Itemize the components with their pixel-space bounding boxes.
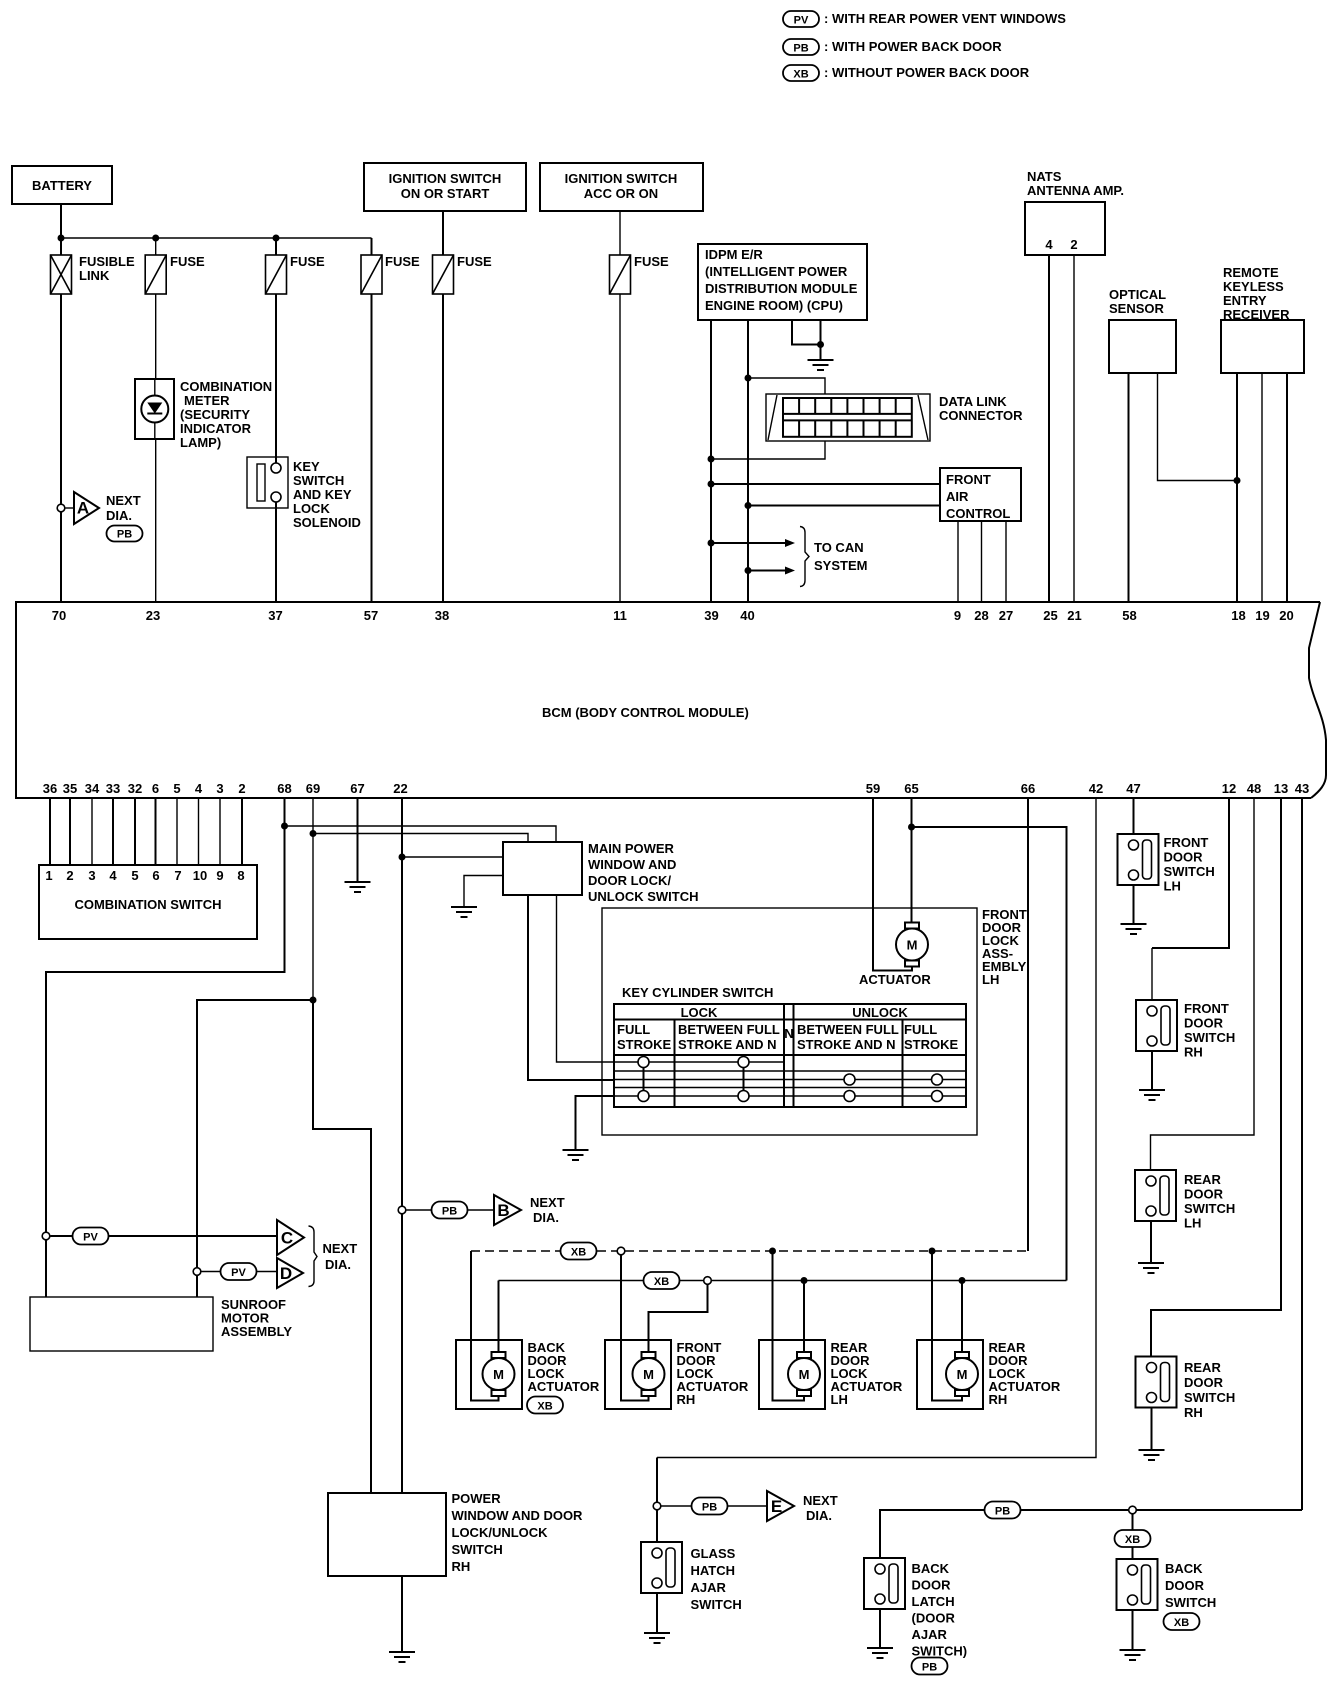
svg-text:DOOR: DOOR [912,1578,952,1593]
svg-text:3: 3 [216,781,223,796]
svg-text:LH: LH [1184,1216,1201,1231]
svg-text:M: M [957,1367,968,1382]
svg-text:ACC OR ON: ACC OR ON [584,186,658,201]
svg-text:70: 70 [52,608,66,623]
svg-text:STROKE: STROKE [904,1037,959,1052]
svg-text:INDICATOR: INDICATOR [180,421,252,436]
svg-text:1: 1 [45,868,52,883]
svg-text:43: 43 [1295,781,1309,796]
svg-text:5: 5 [173,781,180,796]
svg-text:20: 20 [1279,608,1293,623]
svg-text:(SECURITY: (SECURITY [180,407,250,422]
svg-text:6: 6 [152,781,159,796]
svg-text:M: M [907,938,918,953]
svg-text:REAR: REAR [1184,1172,1221,1187]
svg-text:GLASS: GLASS [691,1546,736,1561]
svg-text:SWITCH: SWITCH [1184,1201,1235,1216]
svg-text:LH: LH [1164,879,1181,894]
svg-text:PB: PB [793,43,808,55]
svg-text:33: 33 [106,781,120,796]
svg-text:CONTROL: CONTROL [946,506,1010,521]
svg-text:2: 2 [66,868,73,883]
svg-text:XB: XB [1125,1534,1140,1546]
svg-text:40: 40 [740,608,754,623]
svg-text:12: 12 [1222,781,1236,796]
svg-text:PB: PB [117,529,132,541]
svg-text:IGNITION SWITCH: IGNITION SWITCH [389,171,502,186]
svg-text:BETWEEN FULL: BETWEEN FULL [678,1022,780,1037]
svg-text:B: B [497,1201,509,1220]
svg-text:CONNECTOR: CONNECTOR [939,408,1023,423]
svg-text:COMBINATION: COMBINATION [180,379,272,394]
svg-text:STROKE: STROKE [617,1037,672,1052]
svg-text:36: 36 [43,781,57,796]
svg-text:LOCK: LOCK [681,1005,718,1020]
svg-text:BACK: BACK [1165,1561,1203,1576]
svg-text:ACTUATOR: ACTUATOR [859,972,931,987]
svg-text:FUSE: FUSE [634,254,669,269]
svg-text:DOOR: DOOR [1164,850,1204,865]
svg-text:FRONT: FRONT [1184,1001,1229,1016]
svg-text:REMOTE: REMOTE [1223,265,1279,280]
svg-text:13: 13 [1274,781,1288,796]
svg-text:FUSE: FUSE [290,254,325,269]
svg-text:AIR: AIR [946,489,969,504]
svg-text:ASSEMBLY: ASSEMBLY [221,1324,292,1339]
svg-text:KEY: KEY [293,459,320,474]
svg-text:REAR: REAR [1184,1360,1221,1375]
svg-text:39: 39 [704,608,718,623]
svg-text:NEXT: NEXT [803,1493,838,1508]
svg-text:47: 47 [1126,781,1140,796]
svg-text:STROKE AND N: STROKE AND N [678,1037,776,1052]
svg-text:22: 22 [393,781,407,796]
svg-text:HATCH: HATCH [691,1563,736,1578]
svg-text:AND KEY: AND KEY [293,487,352,502]
svg-text:BATTERY: BATTERY [32,178,92,193]
svg-text:LH: LH [831,1392,848,1407]
svg-text:LOCK: LOCK [293,501,330,516]
svg-text:DOOR: DOOR [1184,1375,1224,1390]
svg-text:ENTRY: ENTRY [1223,293,1267,308]
svg-text:RH: RH [1184,1045,1203,1060]
svg-text:E: E [771,1497,782,1516]
svg-text:PV: PV [231,1267,246,1279]
svg-text:XB: XB [571,1247,586,1259]
svg-text:PB: PB [442,1206,457,1218]
svg-text:37: 37 [268,608,282,623]
svg-text:XB: XB [654,1276,669,1288]
svg-text:8: 8 [237,868,244,883]
svg-text:DIA.: DIA. [325,1257,351,1272]
svg-text:STROKE AND N: STROKE AND N [797,1037,895,1052]
svg-text:SOLENOID: SOLENOID [293,515,361,530]
svg-text:: WITH REAR POWER VENT WINDOWS: : WITH REAR POWER VENT WINDOWS [824,11,1066,26]
svg-text:59: 59 [866,781,880,796]
svg-text:BACK: BACK [912,1561,950,1576]
svg-text:BETWEEN FULL: BETWEEN FULL [797,1022,899,1037]
svg-text:M: M [643,1367,654,1382]
svg-text:METER: METER [184,393,230,408]
svg-text:DOOR: DOOR [1184,1016,1224,1031]
svg-text:32: 32 [128,781,142,796]
svg-text:COMBINATION SWITCH: COMBINATION SWITCH [74,897,221,912]
svg-text:LH: LH [982,972,999,987]
svg-text:XB: XB [537,1401,552,1413]
svg-text:DOOR: DOOR [1165,1578,1205,1593]
svg-text:9: 9 [216,868,223,883]
svg-text:9: 9 [954,608,961,623]
svg-text:: WITHOUT POWER BACK DOOR: : WITHOUT POWER BACK DOOR [824,65,1030,80]
svg-text:A: A [77,499,89,518]
svg-text:PB: PB [702,1502,717,1514]
svg-text:: WITH POWER BACK DOOR: : WITH POWER BACK DOOR [824,39,1002,54]
svg-text:NATS: NATS [1027,169,1062,184]
svg-text:RH: RH [989,1392,1008,1407]
svg-text:10: 10 [193,868,207,883]
svg-text:3: 3 [88,868,95,883]
svg-text:NEXT: NEXT [106,493,141,508]
svg-text:SWITCH: SWITCH [1165,1595,1216,1610]
svg-text:2: 2 [238,781,245,796]
svg-text:SWITCH: SWITCH [452,1542,503,1557]
svg-text:IDPM E/R: IDPM E/R [705,247,763,262]
svg-text:(INTELLIGENT POWER: (INTELLIGENT POWER [705,264,848,279]
svg-text:21: 21 [1067,608,1081,623]
svg-text:PV: PV [83,1232,98,1244]
svg-text:MAIN POWER: MAIN POWER [588,841,675,856]
svg-text:LINK: LINK [79,268,110,283]
svg-text:DIA.: DIA. [806,1508,832,1523]
svg-text:D: D [280,1264,292,1283]
svg-text:DIA.: DIA. [106,508,132,523]
svg-text:28: 28 [974,608,988,623]
svg-text:SWITCH: SWITCH [1164,864,1215,879]
svg-text:RH: RH [677,1392,696,1407]
svg-text:LAMP): LAMP) [180,435,221,450]
svg-text:FRONT: FRONT [1164,835,1209,850]
svg-text:FUSE: FUSE [457,254,492,269]
svg-text:OPTICAL: OPTICAL [1109,287,1166,302]
svg-text:48: 48 [1247,781,1261,796]
svg-text:SWITCH): SWITCH) [912,1644,968,1659]
svg-text:SENSOR: SENSOR [1109,301,1165,316]
svg-text:SWITCH: SWITCH [691,1597,742,1612]
svg-text:4: 4 [195,781,203,796]
svg-text:DISTRIBUTION MODULE: DISTRIBUTION MODULE [705,281,858,296]
svg-text:DIA.: DIA. [533,1210,559,1225]
svg-text:65: 65 [904,781,918,796]
svg-text:5: 5 [131,868,138,883]
svg-text:XB: XB [793,69,808,81]
svg-text:KEYLESS: KEYLESS [1223,279,1284,294]
svg-text:M: M [493,1367,504,1382]
svg-text:ACTUATOR: ACTUATOR [528,1379,600,1394]
svg-text:NEXT: NEXT [323,1241,358,1256]
svg-text:25: 25 [1043,608,1057,623]
svg-text:18: 18 [1231,608,1245,623]
svg-text:PV: PV [794,15,809,27]
svg-text:UNLOCK SWITCH: UNLOCK SWITCH [588,889,699,904]
svg-text:KEY CYLINDER SWITCH: KEY CYLINDER SWITCH [622,985,773,1000]
svg-text:57: 57 [364,608,378,623]
svg-text:AJAR: AJAR [912,1627,948,1642]
svg-text:UNLOCK: UNLOCK [852,1005,908,1020]
svg-text:ENGINE ROOM) (CPU): ENGINE ROOM) (CPU) [705,298,843,313]
svg-text:4: 4 [1045,237,1053,252]
svg-text:NEXT: NEXT [530,1195,565,1210]
svg-text:(DOOR: (DOOR [912,1611,956,1626]
svg-text:DOOR: DOOR [1184,1187,1224,1202]
svg-text:DATA LINK: DATA LINK [939,394,1007,409]
svg-text:FULL: FULL [904,1022,937,1037]
svg-text:SWITCH: SWITCH [1184,1030,1235,1045]
svg-text:34: 34 [85,781,100,796]
svg-text:RH: RH [1184,1405,1203,1420]
svg-text:PB: PB [995,1506,1010,1518]
svg-text:SWITCH: SWITCH [1184,1390,1235,1405]
svg-text:2: 2 [1070,237,1077,252]
svg-text:IGNITION SWITCH: IGNITION SWITCH [565,171,678,186]
svg-text:LOCK/UNLOCK: LOCK/UNLOCK [452,1525,549,1540]
svg-text:AJAR: AJAR [691,1580,727,1595]
svg-text:SWITCH: SWITCH [293,473,344,488]
svg-text:7: 7 [174,868,181,883]
svg-text:11: 11 [613,608,627,623]
svg-text:WINDOW AND DOOR: WINDOW AND DOOR [452,1508,584,1523]
svg-text:42: 42 [1089,781,1103,796]
svg-text:M: M [799,1367,810,1382]
svg-text:6: 6 [152,868,159,883]
svg-text:DOOR LOCK/: DOOR LOCK/ [588,873,671,888]
svg-text:TO CAN: TO CAN [814,540,864,555]
svg-text:POWER: POWER [452,1491,502,1506]
svg-text:58: 58 [1122,608,1136,623]
svg-text:67: 67 [350,781,364,796]
svg-text:FRONT: FRONT [946,472,991,487]
svg-text:PB: PB [922,1662,937,1674]
svg-text:19: 19 [1255,608,1269,623]
svg-text:FULL: FULL [617,1022,650,1037]
svg-text:ANTENNA AMP.: ANTENNA AMP. [1027,183,1124,198]
svg-text:C: C [281,1229,293,1248]
svg-text:FUSE: FUSE [385,254,420,269]
svg-text:35: 35 [63,781,77,796]
svg-text:4: 4 [109,868,117,883]
svg-text:FUSE: FUSE [170,254,205,269]
svg-text:BCM (BODY CONTROL MODULE): BCM (BODY CONTROL MODULE) [542,705,749,720]
svg-text:66: 66 [1021,781,1035,796]
svg-text:FUSIBLE: FUSIBLE [79,254,135,269]
svg-text:23: 23 [146,608,160,623]
svg-text:XB: XB [1174,1617,1189,1629]
svg-text:38: 38 [435,608,449,623]
svg-text:69: 69 [306,781,320,796]
svg-text:ON OR START: ON OR START [401,186,490,201]
svg-text:WINDOW AND: WINDOW AND [588,857,676,872]
svg-text:SYSTEM: SYSTEM [814,558,867,573]
svg-text:27: 27 [999,608,1013,623]
svg-text:RH: RH [452,1559,471,1574]
svg-text:68: 68 [277,781,291,796]
svg-text:LATCH: LATCH [912,1594,955,1609]
svg-text:N: N [784,1026,793,1041]
